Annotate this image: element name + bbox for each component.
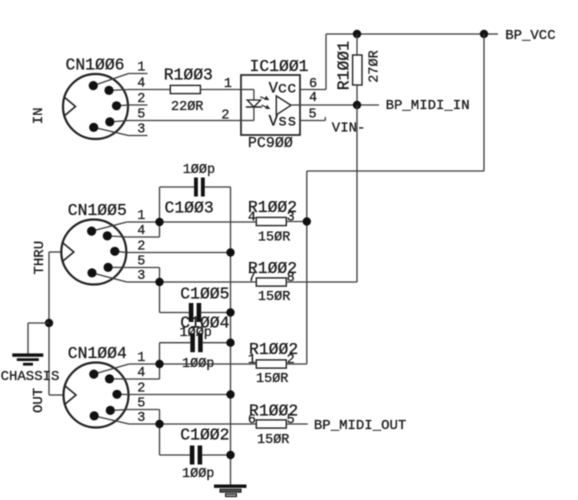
node BP_MIDI_IN junction [353,101,361,109]
connector CN1006 pin 4 dot+lead [104,86,128,95]
connector CN1005 label [68,201,127,220]
svg-text:C1ØØ4: C1ØØ4 [180,314,229,333]
connector CN1004 circle [64,363,129,428]
node junction C1005 bus [226,308,234,316]
resistor R1002 pin number 2 [287,353,295,368]
wire chassis branch horizontal [28,322,49,324]
node junction CN1005 pin2 bus [226,248,234,256]
svg-text:BP_MIDI_OUT: BP_MIDI_OUT [314,418,406,434]
IC1001 inner wire pin1 [241,89,254,91]
svg-text:1: 1 [137,209,145,224]
wire IC1001 pin5 stub [300,120,325,122]
svg-text:R1ØØ3: R1ØØ3 [164,66,213,85]
resistor R1002 body [256,420,286,428]
svg-text:C1ØØ3: C1ØØ3 [165,198,214,217]
connector CN1005 pin number 3 [137,269,145,284]
resistor R1003 body [170,85,200,93]
IC1001 pin number 5 [309,108,317,123]
resistor R1002 pin number 3 [287,211,295,226]
resistor R1002 pin number 5 [287,413,295,428]
resistor R1002 name [248,259,297,278]
svg-text:4: 4 [309,91,317,106]
connector CN1004 pin 1 dot+lead [89,364,129,379]
svg-text:4: 4 [137,224,145,239]
svg-text:CHASSIS: CHASSIS [1,369,60,385]
op-amp/optocoupler IC1001 outline [241,75,300,135]
connector CN1006 pin 1 dot+lead [89,74,129,91]
connector CN1004 pin 3 dot+lead [90,411,129,424]
capacitor C1002 right wire [202,454,230,456]
wire CN1004 pin3 to R1002d [129,423,256,425]
connector CN1005 pin 3 dot+lead [87,268,126,282]
svg-text:1ØØp: 1ØØp [182,467,214,482]
wire R1002c right to BP_VCC net [286,363,307,365]
svg-text:IN: IN [31,107,47,124]
IC1001 pin number 6 [309,77,317,92]
connector CN1006 label [66,55,125,74]
svg-text:3: 3 [137,123,145,138]
svg-text:3: 3 [137,269,145,284]
svg-text:1ØØp: 1ØØp [183,163,215,178]
wire R1002d right stub [286,423,308,425]
svg-text:4: 4 [248,211,256,226]
wire BP_VCC horizontal to x307 [307,170,484,172]
node junction R1002a / BP_VCC net [303,217,311,225]
wire BP_VCC top rail [326,33,484,35]
node chassis junction [45,319,53,327]
node junction CN1004 pin2 bus [226,390,234,398]
wire IC1001 pin4 to BP_MIDI_IN [300,104,379,106]
svg-text:1: 1 [248,353,256,368]
connector CN1005 pin number 5 [137,255,145,270]
port label THRU [32,241,48,275]
svg-text:Vcc: Vcc [269,79,297,97]
svg-text:6: 6 [248,413,256,428]
capacitor C1004 plates [190,333,202,352]
resistor R1002 pin number 4 [248,211,256,226]
svg-text:CN1ØØ5: CN1ØØ5 [68,201,127,220]
wire CN1005 pin3 to R1002b [127,281,256,283]
connector CN1006 pin number 1 [137,61,145,76]
svg-text:THRU: THRU [32,241,48,275]
resistor R1002 pin number 7 [248,271,256,286]
svg-text:22ØR: 22ØR [171,100,203,115]
capacitor C1005 plates [189,303,201,322]
svg-text:15ØR: 15ØR [258,230,290,245]
svg-text:VIN-: VIN- [332,120,366,136]
IC1001 text Vcc [269,79,297,97]
node junction C1002 bus [226,451,234,459]
resistor R1002 pin number 6 [248,413,256,428]
resistor R1002 name [249,401,298,420]
svg-text:3: 3 [137,411,145,426]
wire R1002a right [286,221,307,223]
resistor R1003 value 220R [171,100,203,115]
wire CN1006 pin2 stub [129,104,148,106]
wire BP_MIDI_IN drop to R1002 pin8 [356,105,358,282]
ground (chassis) symbol [12,353,43,365]
capacitor C1004 right wire [203,342,231,344]
resistor R1002 name [248,198,297,217]
svg-text:15ØR: 15ØR [257,433,289,448]
svg-text:4: 4 [137,77,145,92]
net label BP_MIDI_IN [386,98,470,114]
svg-text:2: 2 [137,240,145,255]
port label OUT [31,388,47,413]
node BP_VCC junction right [480,30,488,38]
IC1001 pin number 1 [224,77,232,92]
capacitor C1005 right wire [201,312,230,314]
resistor R1002 pin number 1 [248,353,256,368]
wire vertical C1004 to CN1004 pins1+4 [159,343,161,379]
connector CN1004 pin 2 dot+lead [112,390,129,399]
resistor R1002 pin number 8 [287,271,295,286]
wire CN1005 notch to left rail [49,251,61,253]
IC1001 LED anode lead [253,90,255,101]
node BP_VCC junction at R1001 top [353,30,361,38]
svg-text:Vss: Vss [269,112,297,130]
capacitor C1002 name [180,425,229,444]
svg-text:4: 4 [137,366,145,381]
resistor R1002 name [249,340,298,359]
capacitor C1003 name [165,198,214,217]
resistor R1002 body [256,278,286,286]
IC1001 pin number 2 [221,108,229,123]
svg-text:BP_VCC: BP_VCC [505,28,555,44]
connector CN1006 pin number 4 [137,77,145,92]
resistor R1001 name [335,41,354,90]
svg-text:OUT: OUT [31,388,47,413]
svg-text:27ØR: 27ØR [368,50,383,82]
connector CN1006 pin number 2 [137,92,145,107]
IC1001 detector triangle [276,96,300,115]
svg-text:IC1ØØ1: IC1ØØ1 [250,57,309,76]
connector CN1006 pin number 3 [137,123,145,138]
IC1001 LED cathode lead [253,107,255,121]
connector CN1004 notch [65,386,76,404]
svg-text:2: 2 [137,92,145,107]
wire CN1006 pin5 to IC1001 pin2 [129,120,242,122]
wire CN1004 pin2 to bus [129,394,231,396]
svg-text:5: 5 [287,413,295,428]
resistor R1003 name [164,66,213,85]
connector CN1005 pin number 1 [137,209,145,224]
resistor R1002 value 150R [256,372,288,387]
IC1001 value PC900 [248,135,293,152]
wire CN1006 pin1 stub [129,73,148,75]
resistor R1002 value 150R [258,230,290,245]
ground (earth) symbol at bus bottom [214,485,247,497]
IC1001 light arrow 1 [260,96,269,100]
wire vertical C1003-left / pins1+4 [159,187,161,237]
wire IC1001 pin6 stub [300,89,326,91]
connector CN1006 pin 5 dot+lead [105,117,128,126]
connector CN1005 circle [61,220,126,285]
wire BP_VCC label stub [484,33,498,35]
connector CN1005 pin number 2 [137,240,145,255]
wire R1001 bottom lead [356,85,358,105]
connector CN1006 pin number 5 [137,108,145,123]
connector CN1005 notch [63,243,74,261]
resistor R1002 body [256,217,286,225]
connector CN1005 pin 4 dot+lead [103,231,127,240]
IC1001 LED diode [246,100,262,107]
wire CN1005 pin2 to bus [127,252,231,254]
wire vertical pin5 to C1002 [159,410,161,456]
svg-text:CN1ØØ4: CN1ØØ4 [68,344,127,363]
svg-text:8: 8 [287,271,295,286]
connector CN1004 pin number 4 [137,366,145,381]
svg-text:15ØR: 15ØR [256,372,288,387]
connector CN1004 pin 4 dot+lead [105,374,129,383]
capacitor C1003 plates [194,178,205,197]
capacitor C1003 right wire [205,186,231,188]
wire R1003 to IC1001 pin1 [200,89,241,91]
wire left chassis rail [48,252,50,395]
node junction C1004 bus [226,339,234,347]
wire CN1005 pin4 [127,236,160,238]
svg-text:2: 2 [287,353,295,368]
net label BP_VCC [505,28,555,44]
IC1001 pin number 4 [309,91,317,106]
IC1001 name [250,57,309,76]
connector CN1004 pin number 3 [137,411,145,426]
resistor R1002 body [256,360,286,368]
capacitor C1003 left wire [160,186,195,188]
connector CN1005 pin 5 dot+lead [104,263,127,272]
svg-text:PC9ØØ: PC9ØØ [248,135,293,152]
wire CN1005 pin1 to R1002a [127,221,256,223]
resistor R1002 value 150R [258,290,290,305]
svg-text:CN1ØØ6: CN1ØØ6 [66,55,125,74]
net label BP_MIDI_OUT [314,418,406,434]
wire VIN- label tick [324,117,326,121]
capacitor C1002 left wire [160,454,190,456]
net label VIN- [332,120,366,136]
capacitor C1004 value 100p [182,357,214,372]
svg-text:R1ØØ1: R1ØØ1 [335,41,354,90]
svg-text:1: 1 [137,351,145,366]
connector CN1004 label [68,344,127,363]
net label CHASSIS [1,369,60,385]
wire CN1006 pin3 stub [129,135,148,137]
capacitor C1005 name [180,285,229,304]
node junction CN1004 pins1+4 [155,360,163,368]
svg-text:5: 5 [137,397,145,412]
wire CN1005 pin5 [127,267,160,269]
capacitor C1003 value 100p [183,163,215,178]
connector CN1004 pin number 1 [137,351,145,366]
wire ground bus x230 [230,187,232,485]
IC1001 inner wire pin2 [241,120,254,122]
capacitor C1005 left wire [160,312,189,314]
svg-text:15ØR: 15ØR [258,290,290,305]
svg-text:C1ØØ2: C1ØØ2 [180,425,229,444]
wire CN1004 pin4 [129,378,160,380]
connector CN1006 notch [65,98,76,116]
svg-text:BP_MIDI_IN: BP_MIDI_IN [386,98,470,114]
wire to CN1004 notch [49,394,63,396]
connector CN1006 pin 3 dot+lead [89,123,128,136]
svg-text:1: 1 [137,61,145,76]
capacitor C1004 left wire [160,342,191,344]
svg-text:2: 2 [137,382,145,397]
svg-text:C1ØØ5: C1ØØ5 [180,285,229,304]
wire chassis branch vertical [27,323,29,354]
svg-text:5: 5 [137,108,145,123]
capacitor C1002 plates [190,446,202,465]
wire vertical pin5 to C1005 [159,268,161,313]
svg-text:3: 3 [287,211,295,226]
connector CN1006 pin 2 dot+lead [112,101,129,110]
IC1001 light arrow 2 [262,105,271,109]
resistor R1001 value 270R [368,50,383,82]
wire CN1006 pin4 to R1003 [129,89,171,91]
connector CN1005 pin number 4 [137,224,145,239]
wire BP_VCC right drop [483,34,485,171]
connector CN1005 pin 1 dot+lead [87,222,127,236]
IC1001 text Vss [269,112,297,130]
port label IN [31,107,47,124]
capacitor C1002 value 100p [182,467,214,482]
connector CN1005 pin 2 dot+lead [110,247,127,256]
connector CN1004 pin 5 dot+lead [106,406,129,415]
wire R1002b right to BP_MIDI_IN drop [286,281,357,283]
wire BP_VCC vertical x307 [306,171,308,364]
resistor R1001 body [353,55,362,85]
wire IC1001 pin6 riser to BP_VCC [325,34,327,90]
capacitor C1005 value 100p [180,326,212,341]
connector CN1004 pin number 2 [137,382,145,397]
connector CN1004 pin number 5 [137,397,145,412]
resistor R1002 value 150R [257,433,289,448]
svg-text:5: 5 [137,255,145,270]
capacitor C1004 name [180,314,229,333]
wire CN1004 pin5 [129,409,160,411]
svg-text:7: 7 [248,271,256,286]
node junction pins1+4 CN1005 [155,218,163,226]
node junction pins3+5 CN1005 [155,278,163,286]
wire CN1004 pin1 to R1002c [129,363,256,365]
node junction CN1004 pins3+5 [155,420,163,428]
wire R1001 top lead [356,34,358,55]
connector CN1006 circle [63,74,128,139]
